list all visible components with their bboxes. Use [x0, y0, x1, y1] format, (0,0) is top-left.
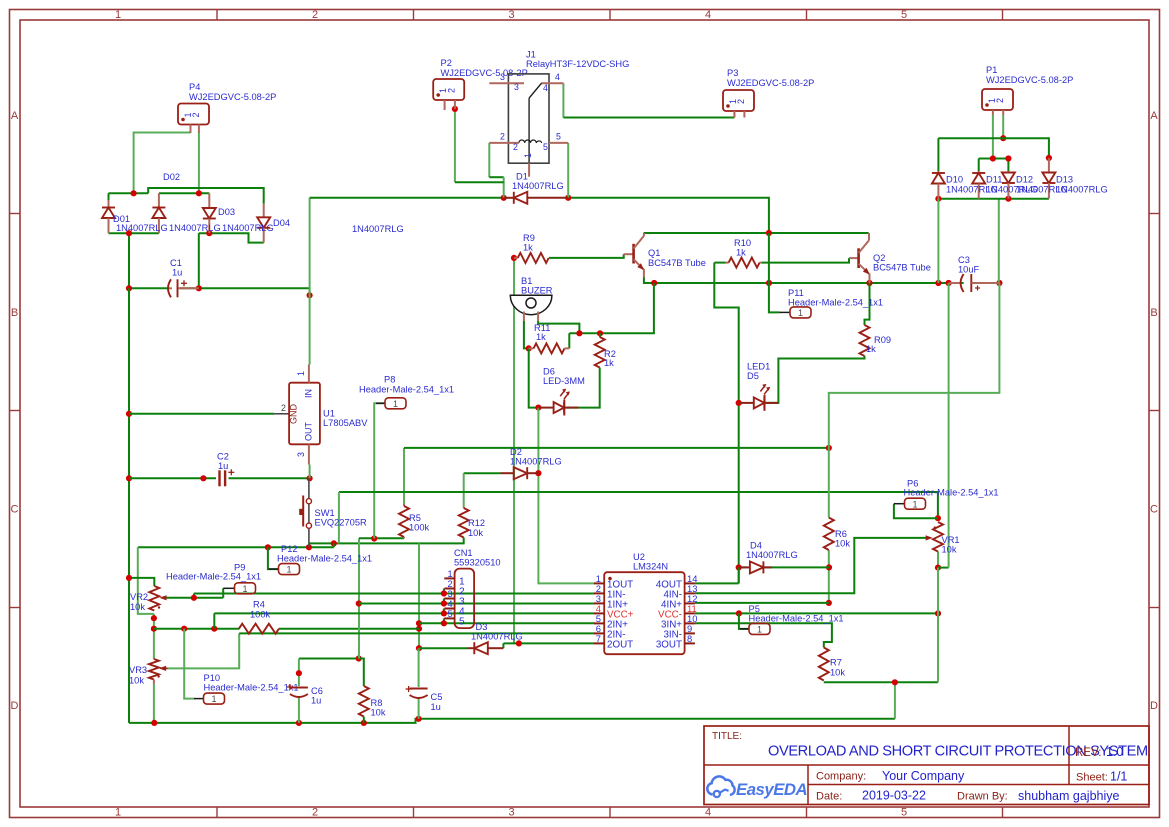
wire 12V distribution row y=448: [404, 447, 829, 449]
svg-text:WJ2EDGVC-5.08-2P: WJ2EDGVC-5.08-2P: [986, 75, 1073, 85]
svg-text:2: 2: [736, 99, 746, 104]
wire D3 row from C5 node: [419, 647, 468, 649]
diode D02: [158, 193, 160, 207]
wire emitter rail right of C3: [972, 282, 1000, 284]
svg-text:1N4007RLG: 1N4007RLG: [1056, 185, 1108, 195]
svg-text:2: 2: [312, 9, 318, 21]
svg-text:3OUT: 3OUT: [656, 639, 682, 650]
node D4 anode junction: [736, 564, 742, 570]
header P5 Header-Male-2.54_1x1: [740, 628, 750, 630]
svg-text:2: 2: [446, 88, 456, 93]
wire C6 top row: [299, 658, 359, 660]
LED D6 LED-3MM: [538, 407, 553, 409]
node x419 R4 junction: [416, 626, 422, 632]
wire R11-R2 rail to Q1 emitter riser: [569, 283, 654, 333]
svg-text:10uF: 10uF: [958, 265, 980, 275]
node R11 left junction: [526, 345, 532, 351]
resistor R12 10k: [463, 507, 465, 508]
wire bridge bottom rail D03-D04 jog: [199, 233, 264, 242]
svg-text:D5: D5: [747, 371, 759, 381]
svg-text:2019-03-22: 2019-03-22: [862, 789, 926, 803]
svg-text:VR1: VR1: [942, 535, 960, 545]
node C1 right junction: [196, 285, 202, 291]
svg-text:D2: D2: [510, 447, 522, 457]
svg-text:D13: D13: [1056, 175, 1073, 185]
svg-text:1: 1: [242, 584, 247, 594]
svg-text:Q1: Q1: [648, 248, 660, 258]
wire C2 row right: [229, 477, 310, 479]
P9 black lead: [223, 587, 235, 589]
svg-text:7: 7: [596, 633, 601, 644]
svg-text:1: 1: [523, 153, 533, 158]
svg-text:D: D: [11, 700, 19, 712]
svg-text:3: 3: [448, 589, 453, 599]
wire D2 anode down to R12 top: [463, 473, 465, 507]
svg-text:3: 3: [500, 72, 505, 82]
wire P12-row left riser down to VR2 bottom: [138, 547, 154, 614]
svg-text:GND: GND: [289, 404, 299, 425]
wire R10 right to Q2 base: [762, 258, 850, 263]
node sense column 1IN+ row junction: [356, 600, 362, 606]
connector P2 WJ2EDGVC-5.08-2P: [433, 79, 464, 100]
node row448 end junction: [826, 445, 832, 451]
wire 12V rail from D1 row down to U1 IN: [309, 198, 311, 365]
wire 5V riser x=419 from SW1 row to C5: [418, 543, 420, 648]
P6 black lead: [894, 503, 905, 505]
svg-text:P8: P8: [384, 375, 395, 385]
svg-text:1k: 1k: [736, 248, 746, 258]
svg-text:D10: D10: [946, 175, 963, 185]
wire U2 pin10 row to R7 top: [695, 623, 832, 647]
resistor R11 1k: [529, 347, 534, 349]
node P5 riser junction: [736, 610, 742, 616]
wire R4 right to x419: [279, 628, 419, 630]
svg-text:10k: 10k: [371, 708, 386, 718]
svg-text:10k: 10k: [468, 528, 483, 538]
svg-text:1k: 1k: [604, 358, 614, 368]
node GND C5 junction: [416, 716, 422, 722]
wire emitter rail Q1 to C3: [644, 278, 964, 284]
node D03 bottom junction: [206, 230, 212, 236]
potentiometer VR1 10k: [933, 522, 943, 552]
svg-text:1: 1: [115, 9, 121, 21]
wire P11 tap from emitter-rail riser: [769, 233, 780, 312]
svg-text:Header-Male-2.54_1x1: Header-Male-2.54_1x1: [749, 614, 844, 624]
svg-text:CN1: CN1: [454, 548, 473, 558]
op-amp U2 LM324N: [604, 572, 684, 654]
svg-text:B1: B1: [521, 276, 532, 286]
svg-text:8: 8: [687, 633, 692, 644]
wire U2 pin14 riser to D4: [695, 582, 739, 584]
diode D1 1N4007RLG: [504, 197, 514, 199]
CN1 pin2 jog: [443, 589, 445, 594]
node C1 left junction: [126, 285, 132, 291]
svg-text:J1: J1: [526, 50, 536, 60]
node emitter rail junctions: [651, 280, 657, 286]
wire U2 left rows: pin2 row: [194, 593, 595, 595]
svg-text:3: 3: [296, 452, 306, 457]
resistor R4 100k: [239, 624, 279, 634]
wire D03-D04 rail down to C1 right: [198, 233, 200, 288]
svg-text:R5: R5: [409, 513, 421, 523]
wire P4 pin1 to bridge top-left rail: [134, 133, 191, 194]
svg-text:1: 1: [115, 807, 121, 819]
svg-text:1N4007RLG: 1N4007RLG: [471, 632, 523, 642]
LED D5 LED1: [739, 402, 754, 404]
svg-text:D03: D03: [218, 207, 235, 217]
wire relay pin4 to P3: [562, 83, 564, 117]
svg-text:5: 5: [901, 807, 907, 819]
svg-text:D4: D4: [750, 541, 762, 551]
svg-text:10k: 10k: [835, 539, 850, 549]
node U1 OUT junction: [307, 475, 313, 481]
node collector rail junction: [766, 230, 772, 236]
wire R5 bottom row: [359, 537, 404, 539]
svg-text:D12: D12: [1016, 175, 1033, 185]
svg-text:5: 5: [448, 609, 453, 619]
node D13 top dot: [1046, 155, 1052, 161]
svg-text:3: 3: [514, 82, 519, 92]
header P12 Header-Male-2.54_1x1: [269, 568, 280, 570]
wire R11 left node down to LED D6 anode: [529, 348, 539, 407]
diode D3 1N4007RLG: [468, 647, 475, 649]
resistor R7 10k: [819, 648, 829, 681]
svg-text:D11: D11: [986, 175, 1002, 185]
svg-text:4: 4: [705, 9, 711, 21]
wire buzzer left pin down to R11: [524, 321, 529, 348]
wire LED D6 column down to U2 pin1 (x=538.5): [538, 408, 594, 584]
CN1 pin5 jog: [443, 618, 445, 623]
potentiometer VR2 10k: [149, 586, 159, 610]
svg-text:1: 1: [296, 371, 306, 376]
svg-text:5: 5: [901, 9, 907, 21]
svg-text:5: 5: [543, 142, 548, 152]
wire R8 top feed: [359, 659, 364, 687]
svg-text:1u: 1u: [431, 702, 441, 712]
svg-text:1N4007RLG: 1N4007RLG: [510, 457, 562, 467]
svg-text:1N4007RLG: 1N4007RLG: [746, 550, 798, 560]
svg-text:4: 4: [705, 807, 711, 819]
voltage regulator U1 L7805ABV: [289, 383, 320, 445]
svg-text:LED1: LED1: [747, 362, 770, 372]
node P1 pin2 junction: [1000, 135, 1006, 141]
svg-text:P5: P5: [749, 604, 760, 614]
node VCC row riser junction: [211, 626, 217, 632]
EasyEDA logo: [707, 776, 734, 794]
transistor Q2 BC547B: [849, 257, 859, 259]
wire C6 top pin column: [298, 659, 300, 687]
wire relay pin2 to D1 anode: [488, 143, 490, 177]
node buzzer tap junction: [576, 330, 582, 336]
wire R2 bottom to LED D6 row: [566, 368, 600, 408]
header P11 Header-Male-2.54_1x1: [780, 311, 791, 313]
svg-text:Header-Male-2.54_1x1: Header-Male-2.54_1x1: [788, 298, 883, 308]
wire sense column x=358.8 (P8/R5 net): [358, 538, 360, 658]
svg-text:4: 4: [448, 599, 453, 609]
svg-text:C6: C6: [311, 686, 323, 696]
svg-text:BC547B Tube: BC547B Tube: [873, 263, 931, 273]
svg-text:R8: R8: [371, 698, 383, 708]
wire P9 riser: [222, 588, 224, 598]
resistor R6 10k: [824, 518, 834, 551]
wire U1 pin3 to C2 node: [309, 465, 311, 479]
wire P4 pin2 drop to D02-D03 rail: [198, 133, 200, 194]
wire bridge top rail jog to D04: [148, 188, 264, 204]
wire GND bottom rail: [129, 719, 895, 723]
diode D04: [263, 204, 265, 218]
svg-text:A: A: [11, 110, 19, 122]
diode D01: [108, 200, 110, 208]
svg-text:P3: P3: [727, 68, 738, 78]
svg-text:C3: C3: [958, 255, 970, 265]
svg-text:2OUT: 2OUT: [607, 639, 633, 650]
wire VR1 bottom link: [937, 552, 939, 568]
svg-text:LM324N: LM324N: [633, 562, 668, 572]
capacitor C1 1u: [167, 287, 172, 289]
svg-text:P4: P4: [189, 82, 200, 92]
CN1 pin4 jog: [443, 609, 445, 614]
wire bridge bottom rail D01-D02: [109, 232, 159, 234]
svg-text:1: 1: [286, 565, 291, 575]
svg-text:C1: C1: [170, 258, 182, 268]
node C6 top dot: [296, 670, 302, 676]
ruler tick marks: [216, 10, 218, 21]
svg-text:10k: 10k: [130, 602, 145, 612]
svg-text:A: A: [1150, 110, 1158, 122]
svg-text:D: D: [1150, 700, 1158, 712]
svg-text:*: *: [288, 683, 292, 693]
wire P10 riser: [184, 629, 194, 699]
svg-text:Header-Male-2.54_1x1: Header-Male-2.54_1x1: [277, 554, 372, 564]
node R9 left junction: [511, 255, 517, 261]
wire R9 base wire to Q1: [549, 254, 624, 258]
wire 2IN- row (pin6): [239, 632, 594, 634]
wire R10 left riser down to LED1 column: [714, 262, 725, 264]
capacitor C3 10uF: [949, 282, 961, 284]
svg-text:2: 2: [281, 403, 286, 413]
svg-text:BC547B Tube: BC547B Tube: [648, 258, 706, 268]
wire VCC- column down to R7 row: [937, 568, 939, 683]
wire D01-D02 rail down to C1 left: [128, 233, 130, 288]
relay J1 pin 2: [489, 142, 519, 144]
relay J1 pin 5: [549, 142, 568, 144]
wire C2 row left: [129, 477, 216, 479]
node P2 pin2 dot: [452, 106, 458, 112]
resistor R9 1k: [514, 257, 518, 259]
wire U2 pin11 VCC- row: [695, 612, 938, 614]
svg-text:1/1: 1/1: [1110, 770, 1127, 784]
wire collector rail Q1-Q2: [644, 232, 869, 234]
resistor R09 1k: [860, 325, 870, 356]
svg-text:1N4007RLG: 1N4007RLG: [169, 223, 221, 233]
svg-text:P2: P2: [441, 58, 452, 68]
node VR1 bottom junction: [935, 565, 941, 571]
wire bridge top rail D02-D03 segment: [159, 192, 209, 194]
svg-text:1k: 1k: [536, 332, 546, 342]
node bottom rail D10 junction: [935, 196, 941, 202]
svg-text:C: C: [1150, 504, 1158, 516]
relay J1 pin 1: [528, 163, 530, 177]
node GND C6 junction: [296, 720, 302, 726]
svg-text:C: C: [11, 504, 19, 516]
svg-text:Company:: Company:: [816, 771, 866, 783]
node SW1 riser junction: [331, 540, 337, 546]
node left rail VR2 junction: [126, 575, 132, 581]
svg-text:1: 1: [798, 308, 803, 318]
svg-text:EasyEDA: EasyEDA: [736, 780, 807, 799]
svg-text:C5: C5: [431, 692, 443, 702]
wire D01 top stub: [108, 193, 110, 200]
wire P1 pin2 drop: [1002, 115, 1004, 139]
wire D4 row right: [765, 566, 830, 568]
svg-text:4: 4: [555, 72, 560, 82]
svg-text:IN: IN: [304, 389, 314, 398]
svg-text:R4: R4: [253, 600, 265, 610]
svg-text:10k: 10k: [830, 668, 845, 678]
node bridge top-left junction: [131, 190, 137, 196]
svg-text:D02: D02: [163, 172, 180, 182]
node VR2 bottom pin dot: [151, 615, 157, 621]
node rail2 D12 junction: [1005, 155, 1011, 161]
relay J1 pin 3: [489, 82, 524, 84]
node VCC- column junction: [935, 610, 941, 616]
svg-text:1k: 1k: [523, 243, 533, 253]
diode D2 1N4007RLG: [501, 472, 515, 474]
header P6 Header-Male-2.54_1x1: [905, 498, 926, 509]
svg-text:2: 2: [448, 579, 453, 589]
wire D10 column to emitter rail: [937, 199, 939, 283]
node CN1 pin2 junction: [441, 590, 447, 596]
svg-text:D1: D1: [516, 172, 528, 182]
wire C3 right column down and across to R6 column: [998, 199, 1000, 283]
pushbutton SW1 EVQ22705R: [308, 478, 310, 547]
svg-text:4: 4: [543, 83, 548, 93]
svg-text:RelayHT3F-12VDC-SHG: RelayHT3F-12VDC-SHG: [526, 59, 629, 69]
relay J1 body: [508, 74, 549, 163]
svg-text:Your Company: Your Company: [882, 769, 965, 783]
resistor R8 10k: [359, 686, 369, 716]
svg-text:100k: 100k: [409, 523, 430, 533]
wire D10-D13 bottom rail: [938, 198, 1049, 200]
node GND VR3 junction: [151, 720, 157, 726]
svg-text:1: 1: [393, 399, 398, 409]
node SW1 bottom junction: [306, 544, 312, 550]
svg-text:Header-Male-2.54_1x1: Header-Male-2.54_1x1: [904, 488, 999, 498]
wire C1 row right to U1 input riser: [180, 288, 310, 295]
node x419 pin5-row junction: [416, 620, 422, 626]
connector P4 WJ2EDGVC-5.08-2P: [178, 104, 209, 125]
svg-text:OUT: OUT: [304, 422, 314, 442]
wire C5 bottom pin: [418, 697, 420, 719]
svg-text:1k: 1k: [866, 344, 876, 354]
node CN1 pin5 junction: [441, 620, 447, 626]
svg-text:VR3: VR3: [129, 665, 147, 675]
wire R09 bottom stub: [861, 356, 865, 359]
node R2 top junction: [597, 330, 603, 336]
node U1 input riser junction: [307, 292, 313, 298]
wire VR2 wiper row: [166, 597, 223, 599]
svg-text:1u: 1u: [311, 696, 321, 706]
node left rail C2 junction: [126, 475, 132, 481]
svg-text:R10: R10: [734, 238, 751, 248]
svg-text:R12: R12: [468, 518, 485, 528]
node bottom rail D12 junction: [1005, 196, 1011, 202]
svg-text:REV:: REV:: [1075, 747, 1101, 759]
svg-text:LED-3MM: LED-3MM: [543, 376, 585, 386]
svg-text:R9: R9: [523, 233, 535, 243]
wire D4 row left: [739, 566, 747, 568]
svg-text:Q2: Q2: [873, 253, 885, 263]
node CN1 pin3 junction: [441, 600, 447, 606]
node pin12 row end junction: [826, 600, 832, 606]
node pin7 row junction: [516, 640, 522, 646]
node LED1 anode junction: [736, 400, 742, 406]
header P10 Header-Male-2.54_1x1: [194, 698, 204, 700]
wire VR1 bottom to C3-left column: [938, 567, 949, 569]
wire R7 bottom row: [824, 681, 938, 683]
svg-text:P1: P1: [986, 65, 997, 75]
wire main left rail: [128, 288, 130, 723]
wire P8 riser: [374, 403, 385, 538]
node C2 row junction: [200, 475, 206, 481]
svg-text:3: 3: [508, 9, 514, 21]
wire R6 bottom to D4 row and pin12 row: [828, 550, 830, 603]
svg-text:1u: 1u: [172, 268, 182, 278]
svg-text:2: 2: [191, 112, 201, 117]
node R7 row junction: [892, 679, 898, 685]
wire riser SW1 row to 5V row: [338, 492, 340, 543]
wire P5 riser: [739, 613, 749, 629]
svg-text:1: 1: [757, 625, 762, 635]
U1 pin2 black lead: [274, 413, 289, 415]
connector P3 WJ2EDGVC-5.08-2P: [723, 90, 754, 111]
wire R9 left rail riser (x=514): [513, 258, 515, 644]
svg-text:1N4007RLG: 1N4007RLG: [352, 224, 404, 234]
node bridge top-mid junction: [196, 190, 202, 196]
wire U2 pin12 row: [695, 602, 829, 604]
connector CN1 559320510: [455, 569, 475, 629]
node CN1 pin4 junction: [441, 610, 447, 616]
node VR1 top junction: [935, 515, 941, 521]
svg-text:U1: U1: [323, 409, 335, 419]
wire D3 jog to pin7 row: [502, 643, 504, 648]
svg-text:1: 1: [912, 499, 917, 509]
node P10 riser junction: [181, 626, 187, 632]
wire bridge top rail D01 segment: [109, 192, 149, 194]
wire C5 top pin: [418, 648, 420, 687]
node x419 D3/C5 junction: [416, 645, 422, 651]
buzzer B1 BUZER: [510, 295, 552, 315]
wire C1 row left: [129, 287, 167, 289]
wire VR3 wiper to U2 pin6 row riser: [168, 633, 239, 668]
relay J1 armature: [528, 98, 530, 163]
wire D1 row (rectified rail): [310, 197, 505, 199]
svg-text:WJ2EDGVC-5.08-2P: WJ2EDGVC-5.08-2P: [441, 68, 528, 78]
svg-text:shubham gajbhiye: shubham gajbhiye: [1018, 789, 1120, 803]
node GND R8 junction: [361, 720, 367, 726]
wire P12 drop: [268, 547, 279, 569]
svg-text:2: 2: [312, 807, 318, 819]
wire 5V row y=492 to VR1 top: [339, 492, 938, 518]
node C6 row R8 junction: [356, 655, 362, 661]
node LED D6 anode junction: [535, 405, 541, 411]
wire P12 row: [138, 546, 334, 548]
svg-text:5: 5: [459, 616, 465, 627]
wire D11-D12 rail 2: [978, 159, 980, 172]
svg-text:P10: P10: [204, 673, 221, 683]
node P8 riser junction: [371, 535, 377, 541]
wire riser to U2 pin4 row: [213, 613, 215, 628]
